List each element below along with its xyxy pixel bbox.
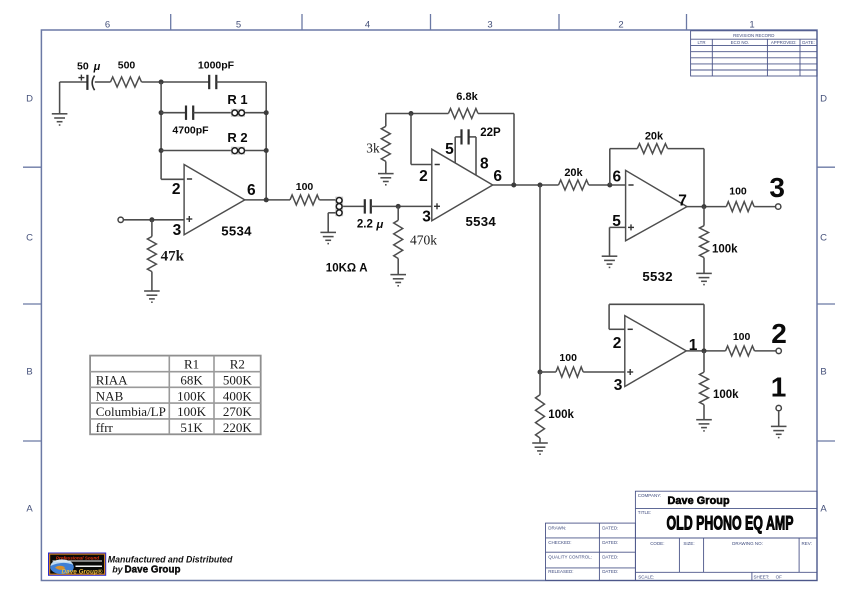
- svg-text:3: 3: [173, 222, 182, 239]
- wire branch3 left: [161, 150, 231, 152]
- svg-text:DATE:: DATE:: [802, 40, 815, 45]
- svg-text:OLD PHONO EQ AMP: OLD PHONO EQ AMP: [667, 513, 794, 534]
- svg-text:1: 1: [749, 19, 754, 30]
- svg-text:1000pF: 1000pF: [198, 60, 235, 72]
- svg-text:B: B: [26, 367, 32, 378]
- EQ values table: [90, 356, 261, 435]
- potentiometer 10K A (3-pin): [335, 197, 343, 217]
- U1 output wire: [245, 199, 290, 201]
- svg-text:68K: 68K: [180, 373, 203, 388]
- svg-text:REV:: REV:: [802, 541, 812, 546]
- svg-text:6.8k: 6.8k: [456, 91, 478, 103]
- U3 feedback wire: [609, 149, 611, 185]
- left zone letters: [26, 94, 33, 515]
- svg-text:8: 8: [480, 156, 489, 173]
- wire 6.8k to output rail: [478, 113, 514, 115]
- svg-text:D: D: [820, 94, 827, 105]
- terminal 1: [776, 405, 781, 410]
- resistor 47k: [151, 220, 153, 237]
- title block labels: [638, 493, 812, 580]
- svg-text:Manufactured and Distributed: Manufactured and Distributed: [108, 554, 233, 564]
- svg-text:3: 3: [769, 172, 785, 203]
- svg-text:D: D: [26, 94, 33, 105]
- op-amp U2 5534: [432, 149, 493, 221]
- right zone ticks: [817, 167, 835, 441]
- svg-text:100k: 100k: [712, 244, 738, 256]
- svg-text:COMPANY:: COMPANY:: [638, 493, 661, 498]
- svg-text:2: 2: [613, 335, 622, 352]
- svg-text:2: 2: [419, 168, 428, 185]
- right rail wire: [265, 82, 267, 200]
- svg-text:RIAA: RIAA: [96, 373, 128, 388]
- svg-text:SCALE:: SCALE:: [638, 574, 654, 579]
- wire R1 to right rail: [245, 112, 266, 114]
- svg-text:DRAWING NO:: DRAWING NO:: [732, 541, 763, 546]
- svg-text:100k: 100k: [548, 409, 574, 421]
- resistor R1 (socket): [231, 109, 245, 117]
- svg-text:R 1: R 1: [227, 92, 247, 107]
- svg-text:R 2: R 2: [227, 130, 247, 145]
- wire R2 to right rail: [245, 150, 266, 152]
- wire 4700pF to R1: [193, 112, 231, 114]
- resistor 100k (U4 out): [703, 351, 705, 372]
- wire 100 to U4 pin3: [583, 371, 625, 373]
- svg-text:by: by: [112, 565, 123, 575]
- node A junction: [159, 80, 164, 85]
- resistor 100k (U3 out): [703, 207, 705, 226]
- top zone ticks: [171, 14, 687, 30]
- svg-text:DRAWN:: DRAWN:: [548, 525, 566, 530]
- svg-text:100: 100: [729, 186, 747, 198]
- wire branch2 left: [161, 112, 186, 114]
- svg-text:100: 100: [559, 352, 577, 364]
- op-amp U4 5532: [625, 316, 687, 387]
- left rail wire: [160, 82, 162, 179]
- op-amp U3 5532: [626, 170, 687, 240]
- ground (U3 pin5): [602, 255, 618, 257]
- svg-text:OF: OF: [776, 574, 783, 579]
- svg-text:ECO NO.: ECO NO.: [731, 40, 750, 45]
- title block signature table: [546, 523, 636, 580]
- svg-text:7: 7: [678, 193, 687, 210]
- capacitor 22P: [460, 129, 462, 144]
- svg-text:μ: μ: [93, 61, 101, 73]
- svg-text:3: 3: [614, 377, 623, 394]
- ground (U4 100k): [696, 419, 712, 421]
- svg-text:Columbia/LP: Columbia/LP: [96, 404, 166, 419]
- svg-text:100: 100: [733, 331, 751, 343]
- wire cap to U2 pin3: [371, 205, 432, 207]
- svg-text:C: C: [26, 233, 33, 244]
- op-amp U1 5534: [184, 165, 245, 235]
- capacitor 4700pF: [185, 106, 187, 120]
- resistor 100 (out 3): [726, 202, 754, 212]
- svg-text:LTR: LTR: [698, 40, 706, 45]
- U4 feedback wire: [703, 304, 705, 351]
- ground (3k): [378, 173, 394, 175]
- terminal 2: [776, 348, 781, 353]
- svg-text:3: 3: [422, 208, 431, 225]
- svg-text:6: 6: [612, 169, 621, 186]
- svg-text:DATED:: DATED:: [602, 540, 618, 545]
- svg-text:20k: 20k: [564, 167, 583, 179]
- left rail junctions: [159, 110, 164, 115]
- svg-text:3: 3: [487, 19, 492, 30]
- signature labels: [548, 525, 618, 574]
- svg-text:2: 2: [172, 181, 181, 198]
- svg-text:6: 6: [105, 19, 110, 30]
- svg-text:22P: 22P: [480, 127, 501, 139]
- svg-text:Dave Group®: Dave Group®: [62, 567, 103, 575]
- svg-text:5534: 5534: [466, 214, 497, 229]
- svg-text:6: 6: [247, 182, 256, 199]
- wire 1000pF to right rail: [216, 81, 266, 83]
- wire 20k to U3 pin6: [589, 184, 626, 186]
- svg-text:47k: 47k: [161, 249, 185, 265]
- svg-text:3k: 3k: [366, 140, 380, 155]
- revision record table: [691, 31, 817, 76]
- wire to pot: [319, 199, 335, 201]
- EQ table text: [96, 356, 253, 435]
- svg-text:REVISION RECORD: REVISION RECORD: [733, 33, 774, 38]
- svg-text:1: 1: [771, 371, 787, 402]
- left zone ticks: [23, 167, 41, 441]
- svg-text:DATED:: DATED:: [602, 525, 618, 530]
- ground (47k): [144, 290, 160, 292]
- svg-text:270K: 270K: [223, 404, 253, 419]
- svg-text:6: 6: [493, 168, 502, 185]
- svg-text:DATED:: DATED:: [602, 569, 618, 574]
- svg-text:B: B: [820, 367, 826, 378]
- svg-text:20k: 20k: [645, 131, 664, 143]
- svg-text:RELEASED:: RELEASED:: [548, 569, 573, 574]
- resistor R2 (socket): [231, 147, 245, 155]
- svg-text:5: 5: [445, 141, 454, 158]
- svg-text:100K: 100K: [177, 388, 207, 403]
- svg-text:NAB: NAB: [96, 388, 124, 403]
- U3 pin5 ground wire: [610, 226, 626, 228]
- svg-text:APPROVED:: APPROVED:: [771, 40, 797, 45]
- capacitor 2.2u: [364, 199, 366, 213]
- resistor 100 (out 2): [726, 346, 755, 356]
- svg-text:4700pF: 4700pF: [172, 124, 209, 136]
- terminal 3: [776, 204, 781, 209]
- right rail junctions: [264, 110, 269, 115]
- resistor 100k (rail): [539, 372, 541, 395]
- svg-text:2: 2: [771, 318, 787, 349]
- junction 470k: [396, 204, 401, 209]
- wire to terminal 2: [755, 350, 776, 352]
- svg-text:A: A: [26, 504, 33, 515]
- capacitor 1000pF: [208, 75, 210, 89]
- svg-text:TITLE:: TITLE:: [638, 510, 652, 515]
- svg-text:Dave Group: Dave Group: [125, 565, 181, 576]
- ground (rail 100k): [532, 442, 548, 444]
- input terminal: [124, 219, 184, 221]
- junction pin3: [149, 217, 154, 222]
- svg-text:4: 4: [365, 19, 370, 30]
- svg-text:R2: R2: [230, 356, 245, 371]
- ground (U3 100k): [696, 272, 712, 274]
- title block main: [635, 491, 817, 580]
- svg-text:ffrr: ffrr: [96, 420, 114, 435]
- wire cap to R500: [95, 81, 111, 83]
- svg-text:A: A: [820, 504, 827, 515]
- ground (terminal 1): [771, 425, 787, 427]
- svg-text:Dave Group: Dave Group: [668, 495, 731, 507]
- svg-text:100: 100: [296, 181, 314, 193]
- capacitor 50u: [86, 75, 88, 90]
- svg-text:51K: 51K: [180, 420, 203, 435]
- input ground drop wire: [59, 82, 61, 114]
- svg-text:2.2: 2.2: [357, 219, 373, 231]
- terminal 1 ground wire: [778, 411, 780, 426]
- svg-text:500K: 500K: [223, 373, 253, 388]
- svg-text:500: 500: [118, 60, 136, 72]
- svg-text:CODE:: CODE:: [650, 541, 664, 546]
- svg-text:2: 2: [618, 19, 623, 30]
- svg-text:100k: 100k: [713, 389, 739, 401]
- top zone numbers: [105, 19, 755, 30]
- svg-text:QUALITY CONTROL:: QUALITY CONTROL:: [548, 554, 592, 559]
- svg-text:220K: 220K: [223, 420, 253, 435]
- svg-text:5532: 5532: [642, 269, 673, 284]
- svg-text:Professional Sound: Professional Sound: [56, 556, 99, 561]
- svg-text:DATED:: DATED:: [602, 554, 618, 559]
- revision record labels: [698, 33, 815, 45]
- logo Dave Group: [48, 553, 106, 576]
- svg-text:100K: 100K: [177, 404, 207, 419]
- wire 20k to U3 out: [668, 148, 704, 150]
- svg-text:SHEET:: SHEET:: [754, 574, 770, 579]
- U3 output wire: [687, 206, 726, 208]
- wiper wire: [343, 205, 365, 207]
- resistor 3k: [385, 114, 387, 127]
- U2 output wire: [493, 184, 559, 186]
- resistor 100 (U1 out): [290, 195, 319, 205]
- resistor 500: [111, 77, 142, 87]
- U2 pin2 wire: [410, 114, 412, 165]
- svg-text:R1: R1: [184, 356, 199, 371]
- wire R500 to node: [142, 81, 210, 83]
- svg-text:CHECKED:: CHECKED:: [548, 540, 571, 545]
- compensation cap 22P stubs: [454, 137, 456, 163]
- resistor 470k: [397, 206, 399, 220]
- right zone letters: [820, 94, 827, 515]
- svg-text:SIZE:: SIZE:: [683, 541, 694, 546]
- svg-text:C: C: [820, 233, 827, 244]
- svg-text:10KΩ A: 10KΩ A: [326, 263, 368, 275]
- svg-text:470k: 470k: [410, 233, 437, 248]
- wire to terminal 3: [754, 206, 775, 208]
- pot ground wire: [328, 212, 335, 214]
- resistor 100 (U4 in): [540, 371, 556, 373]
- ground (470k): [390, 274, 406, 276]
- resistor 6.8k: [448, 109, 478, 119]
- U4 output wire: [686, 350, 725, 352]
- svg-text:400K: 400K: [223, 388, 253, 403]
- svg-text:5: 5: [236, 19, 241, 30]
- 3k node wire: [386, 113, 449, 115]
- main rail down wire: [539, 185, 541, 372]
- svg-text:50: 50: [77, 61, 89, 73]
- ground (input): [52, 113, 68, 115]
- svg-text:μ: μ: [375, 219, 383, 231]
- svg-text:5534: 5534: [221, 224, 252, 239]
- ground (pot): [320, 231, 336, 233]
- resistor 20k (U3 in): [559, 180, 589, 190]
- resistor 20k (U3 feedback): [637, 144, 667, 154]
